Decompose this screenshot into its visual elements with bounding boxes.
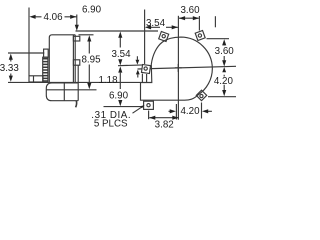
- svg-text:3.33: 3.33: [0, 63, 19, 74]
- ext line y95.3 from bottom-right tab: [208, 96, 236, 98]
- ref line y64.3 (left tab top): [118, 64, 144, 67]
- side view: spring band hatch bars: [43, 59, 48, 81]
- dimension 3.82: line + arrows: [149, 117, 178, 119]
- blower housing outline (front view): [141, 37, 213, 100]
- side view: top clip: [73, 36, 79, 41]
- svg-text:3.54: 3.54: [146, 18, 166, 29]
- svg-text:3.54: 3.54: [111, 49, 131, 60]
- svg-text:6.90: 6.90: [82, 5, 102, 16]
- dimension 4.20 right: line + arrows: [223, 75, 225, 92]
- side view: mounting bracket plate: [49, 35, 75, 83]
- side view: motor body: [46, 83, 78, 101]
- ext line y35.7 from top-right tab hole: [207, 38, 230, 40]
- leader line to .31 DIA hole: [133, 106, 144, 113]
- ext line x199.4 (top-right tab): [198, 16, 200, 31]
- dimension 4.06 line + arrows: [34, 16, 77, 18]
- svg-text:5 PLCS: 5 PLCS: [94, 118, 128, 129]
- long baseline y82.4: [8, 81, 152, 83]
- side view: bracket foot / motor right end: [77, 65, 79, 101]
- dimension 3.60 right: line + arrows: [223, 44, 225, 61]
- svg-text:4.20: 4.20: [214, 76, 234, 87]
- mounting tab left: [141, 64, 150, 73]
- svg-text:8.95: 8.95: [81, 54, 101, 65]
- side view: shaft cap line: [33, 76, 35, 82]
- mounting tab top-right: [195, 31, 205, 41]
- left stack: 3.54 vertical arrows at x120.3: [119, 38, 121, 48]
- ref line y53 for 3.33: [8, 52, 44, 54]
- dimension 4.20 bottom: outside arrows: [169, 110, 212, 112]
- ext line bottom left tab hole level y106: [104, 106, 143, 108]
- ext line x144.6 (left tab hole up to top dims): [144, 10, 146, 65]
- vertical centerline of housing: [177, 16, 179, 120]
- svg-text:6.90: 6.90: [109, 91, 129, 102]
- short vertical line x215.4: [214, 16, 216, 27]
- svg-text:4.20: 4.20: [180, 106, 200, 117]
- side view: motor centerline extended right: [46, 89, 96, 91]
- dimension 3.33 arrows: [10, 59, 12, 78]
- svg-text:4.06: 4.06: [43, 12, 63, 23]
- mounting tab bottom-right: [196, 90, 206, 100]
- mounting tab top-left: [159, 32, 169, 42]
- side view: motor shaft hub: [29, 76, 43, 82]
- mounting tab bottom-left: [144, 101, 154, 109]
- side view: middle clip: [73, 60, 79, 65]
- dimension 3.82: left ext line: [148, 111, 150, 120]
- svg-text:3.60: 3.60: [215, 46, 235, 57]
- left tab pedestal lines: [142, 74, 146, 83]
- side view: lead wire: [76, 101, 77, 108]
- dimension 3.54 top: line + arrows: [147, 26, 178, 28]
- svg-text:3.82: 3.82: [155, 120, 174, 131]
- side view: spring band (hatched): [43, 57, 48, 82]
- ref line y31 (tab hole level): [76, 30, 159, 32]
- dimension 4.20 bottom: ext lines: [176, 103, 201, 120]
- extension/dim line x76.8 with down arrow: [76, 15, 78, 28]
- left stack: 6.90 vertical arrows at x120.3: [119, 73, 121, 102]
- side view: motor end-bell seam: [63, 83, 65, 101]
- side view: capacitor box on left: [44, 49, 49, 57]
- extension line x29 (shaft end): [28, 8, 30, 76]
- svg-text:3.60: 3.60: [180, 5, 200, 16]
- horizontal centerline of housing: [138, 66, 237, 69]
- housing center cross: [175, 64, 182, 72]
- svg-text:1.18: 1.18: [98, 75, 118, 86]
- dimension 8.95 vertical line + arrows: [88, 40, 90, 86]
- 1.18 outside arrows at x138.3: [136, 56, 138, 77]
- dimension 3.60 top: line + arrows: [179, 17, 199, 19]
- dimension 8.95: top ext line: [79, 34, 94, 36]
- side view: plate right face lines: [73, 35, 75, 83]
